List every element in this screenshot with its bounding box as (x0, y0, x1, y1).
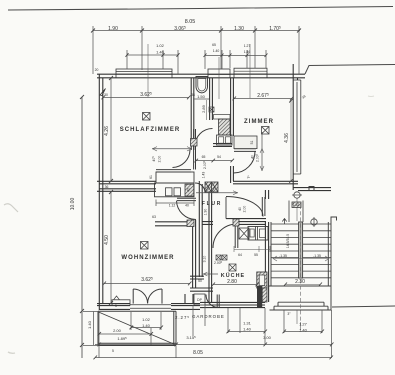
svg-text:5: 5 (115, 304, 117, 308)
svg-text:1.90: 1.90 (108, 26, 118, 32)
wall gardrobe left (209, 192, 212, 302)
svg-text:1.30: 1.30 (234, 26, 244, 32)
wall zimmer left lower (231, 166, 234, 183)
sink box kueche (239, 228, 249, 239)
stair up arrow (282, 219, 286, 225)
svg-text:-1.35: -1.35 (313, 254, 321, 258)
stair bottom block steps (270, 302, 332, 310)
wall stair left lower (265, 222, 268, 302)
tick marks top row3 (126, 53, 268, 57)
top wall end verticals (116, 74, 267, 78)
wall segment above wardrobe (156, 170, 191, 172)
basin unit bad (217, 135, 233, 145)
axis line circle to stair (296, 198, 298, 221)
hall cabinet (155, 183, 195, 197)
dim line flur width (196, 192, 238, 194)
tick marks schlafzimmer dim (102, 96, 191, 100)
bottom dim line long1 (95, 344, 332, 346)
svg-text:1.27: 1.27 (244, 44, 251, 48)
svg-text:1.32: 1.32 (293, 203, 300, 207)
svg-text:1.12: 1.12 (169, 204, 176, 208)
stair axis circle right (311, 219, 317, 225)
hatched block niche end (187, 220, 194, 227)
hall wardrobe top (156, 172, 194, 183)
extension lines top row2 (93, 26, 299, 74)
svg-text:1.50: 1.50 (197, 94, 206, 99)
extension lines top row3 (127, 50, 266, 74)
svg-text:2.00: 2.00 (113, 328, 122, 333)
wall gardrobe top second (190, 288, 213, 291)
left wall marker triangle (100, 89, 106, 96)
stair landing line (269, 285, 331, 287)
svg-text:1.27: 1.27 (299, 322, 308, 327)
chimney kueche hatched (257, 272, 267, 288)
bottom dim row extensions (99, 305, 332, 358)
svg-text:3.10: 3.10 (203, 256, 207, 263)
svg-text:55: 55 (254, 253, 258, 257)
sill lines french door (130, 305, 171, 308)
dim line kueche niche (203, 273, 218, 275)
stair walking line arrows (273, 258, 329, 260)
bottom dim line mid (228, 331, 322, 333)
dim line schlafzimmer height (110, 78, 112, 181)
svg-text:5: 5 (112, 349, 114, 353)
scan smudge left low (8, 352, 15, 353)
tick marks heights left (109, 76, 113, 305)
small arc flur pier (195, 183, 205, 193)
axis circle upper (294, 192, 300, 198)
left wall bottom extension (83, 312, 99, 346)
dim line wohnzimmer height (110, 192, 112, 303)
wall dividing schlafzimmer/wohnzimmer (97, 181, 156, 191)
svg-text:7⁵: 7⁵ (247, 175, 251, 179)
svg-text:1.40: 1.40 (156, 50, 165, 55)
dim lines top row3 (127, 54, 266, 57)
dim line flur door horizontal (152, 148, 192, 150)
window top W3 zimmer (234, 68, 267, 74)
wall exterior top (97, 74, 305, 78)
door kueche leaf (235, 224, 238, 248)
dim line bad width (193, 98, 209, 100)
svg-text:3.00: 3.00 (263, 335, 272, 340)
svg-text:65: 65 (212, 43, 216, 47)
svg-text:8.05: 8.05 (193, 350, 203, 356)
chimney wohnzimmer (112, 300, 130, 306)
wall bad left (191, 78, 194, 150)
tick marks balcony dims (98, 326, 164, 336)
svg-text:38: 38 (191, 93, 195, 97)
bracket stair top right (331, 217, 337, 221)
door schlafzimmer leaf (194, 129, 196, 170)
hatched pier cabinet right (185, 184, 194, 196)
window top W2 bad (208, 69, 230, 74)
svg-text:50: 50 (198, 279, 202, 283)
shaft hatched in bad (219, 119, 231, 135)
svg-text:2.89: 2.89 (201, 104, 206, 113)
door bad arc (195, 129, 213, 147)
wall zimmer bottom (233, 181, 298, 184)
dim line cabinet (156, 200, 194, 207)
chimney dark bar (257, 286, 262, 307)
wall niche top wohnzimmer (155, 222, 190, 226)
svg-text:SCHLAFZIMMER: SCHLAFZIMMER (120, 127, 181, 133)
tick marks top row2 (91, 29, 301, 33)
stair treads (271, 224, 331, 278)
door kueche arc (213, 224, 237, 248)
svg-text:2.80: 2.80 (227, 279, 237, 285)
svg-text:ZIMMER: ZIMMER (244, 119, 274, 125)
dim line kueche width (213, 284, 257, 286)
dim line wohnzimmer width (104, 283, 190, 285)
wall bad right (210, 78, 213, 120)
french door right arc (148, 289, 162, 303)
hatched pier bad door (191, 139, 198, 147)
hatched pier kueche door (233, 219, 239, 226)
svg-text:65: 65 (202, 155, 206, 159)
dim line zimmer height (290, 100, 292, 181)
tick marks left site line (80, 95, 84, 347)
door entry leaf (262, 197, 265, 216)
svg-text:14.5/30.5: 14.5/30.5 (286, 234, 290, 248)
dim line bad height (206, 100, 208, 120)
tick marks bad bottom dim (195, 159, 235, 163)
dim line schlafzimmer width (103, 97, 189, 99)
wall flur left upper (199, 181, 202, 220)
tick marks wohnzimmer width (103, 282, 192, 286)
svg-text:30: 30 (104, 93, 108, 97)
dim arrows flur door (153, 147, 192, 151)
svg-text:4.50: 4.50 (104, 235, 110, 245)
toilet bowl (196, 77, 208, 93)
symbol kueche boxes (216, 255, 221, 260)
svg-text:40: 40 (238, 207, 242, 211)
wall bottom wohnzimmer (97, 304, 200, 310)
door zimmer arc (234, 152, 256, 174)
dim line zimmer width (234, 98, 292, 100)
svg-text:20: 20 (95, 68, 99, 72)
left site dimension line 10.00 (81, 97, 83, 358)
wall zimmer left upper (231, 78, 234, 136)
zimmer closet (234, 136, 257, 149)
svg-text:61: 61 (149, 175, 153, 179)
balcony extension lines (131, 312, 161, 345)
stair shaft outline (271, 221, 331, 311)
svg-text:2.00: 2.00 (243, 206, 247, 213)
svg-text:63: 63 (152, 215, 156, 219)
window top W1 schlafzimmer (116, 69, 172, 74)
door schlafzimmer arc (173, 150, 191, 168)
wall flur left lower (193, 220, 203, 288)
tick marks 4.36 dim (289, 99, 293, 183)
dim line zimmer door vertical (261, 132, 263, 171)
symbol light bad (209, 107, 214, 112)
svg-text:2.00: 2.00 (158, 156, 162, 163)
wall right lower corner extension (293, 188, 331, 191)
svg-text:1.40: 1.40 (142, 323, 151, 328)
svg-text:64: 64 (238, 253, 242, 257)
svg-text:-1.35: -1.35 (279, 254, 287, 258)
entry vestibule jamb (225, 197, 227, 219)
dim line stair width (285, 284, 320, 286)
door wohnzimmer leaf (177, 198, 196, 200)
balcony diagonal (99, 312, 176, 345)
svg-text:1.02: 1.02 (156, 43, 165, 48)
svg-text:40: 40 (185, 204, 189, 208)
svg-text:36: 36 (105, 185, 109, 189)
hatched pier flur corner (205, 182, 212, 192)
scan smudge left mid (4, 204, 18, 212)
svg-text:10.00: 10.00 (70, 198, 76, 211)
stair upper landing walls (289, 201, 303, 223)
door wohnzimmer arc (177, 201, 197, 220)
bottom dim line long2 (95, 357, 331, 359)
site boundary line top (8, 7, 393, 11)
wall kueche top left part (202, 222, 213, 225)
symbol light schlafzimmer (143, 113, 151, 121)
tick marks kueche dim (212, 283, 260, 287)
dim line bad bottom (196, 160, 232, 162)
scan smudge top right (368, 95, 374, 98)
svg-text:40: 40 (251, 155, 255, 159)
wall exterior right upper (293, 64, 297, 190)
bracket right wall t-mark (309, 187, 314, 191)
neighbour wall line right lower (332, 306, 395, 307)
svg-text:1.40: 1.40 (243, 327, 252, 332)
DP box (194, 294, 205, 305)
french door left leaf (132, 289, 134, 304)
tick marks bottom rows (94, 330, 334, 360)
stair stringer (299, 222, 303, 278)
svg-text:KÜCHE: KÜCHE (221, 272, 245, 279)
stair block bottom marks (297, 310, 301, 330)
shaft upper small box (214, 115, 231, 120)
stair center dashed axis (300, 205, 302, 322)
svg-text:1.40: 1.40 (87, 320, 92, 329)
wall jog bottom center (185, 294, 193, 304)
svg-text:1.46: 1.46 (244, 50, 251, 54)
wall gardrobe top (190, 276, 204, 279)
svg-text:4.36: 4.36 (284, 133, 290, 143)
kitchen counter (248, 227, 268, 241)
svg-text:42: 42 (187, 188, 191, 192)
dim chain top main (93, 30, 300, 32)
symbol light wohnzimmer (141, 242, 149, 250)
door zimmer leaf (234, 149, 256, 152)
svg-text:1.43: 1.43 (202, 172, 206, 179)
french door right leaf (161, 289, 163, 304)
wall exterior left (99, 74, 103, 310)
svg-text:4.26: 4.26 (104, 126, 110, 136)
door entry arc (226, 197, 263, 217)
hatched block right wall (292, 202, 301, 208)
svg-text:51: 51 (250, 141, 254, 145)
wall stair left (265, 190, 268, 199)
dim line kueche counters (234, 246, 270, 252)
svg-text:1.02: 1.02 (142, 317, 151, 322)
balcony outline (98, 311, 176, 345)
svg-text:1.90: 1.90 (204, 209, 208, 216)
symbol light zimmer (262, 127, 270, 135)
wall bottom kueche (200, 302, 265, 307)
svg-text:2.30: 2.30 (295, 279, 305, 285)
tick marks zimmer dim (233, 97, 294, 101)
tick marks stair dim (284, 283, 323, 287)
neighbour wall line right upper (305, 65, 395, 75)
svg-text:1.31: 1.31 (243, 321, 252, 326)
window right wall (293, 80, 301, 174)
door terrace leaf (217, 295, 219, 308)
svg-text:1.40: 1.40 (299, 328, 308, 333)
door terrace small arc (206, 295, 218, 308)
wall bad bottom (213, 144, 232, 147)
svg-text:54: 54 (217, 155, 221, 159)
window axis lines (148, 44, 250, 99)
svg-text:1.40: 1.40 (213, 49, 220, 53)
svg-text:WOHNZIMMER: WOHNZIMMER (121, 255, 174, 261)
svg-text:DP: DP (197, 298, 202, 302)
svg-text:FLUR: FLUR (202, 201, 222, 207)
svg-text:8.05: 8.05 (185, 19, 196, 25)
symbol light kueche (229, 264, 236, 271)
french door left arc (133, 289, 147, 303)
wall kueche top right part (226, 219, 266, 225)
balcony dim line (99, 328, 161, 335)
